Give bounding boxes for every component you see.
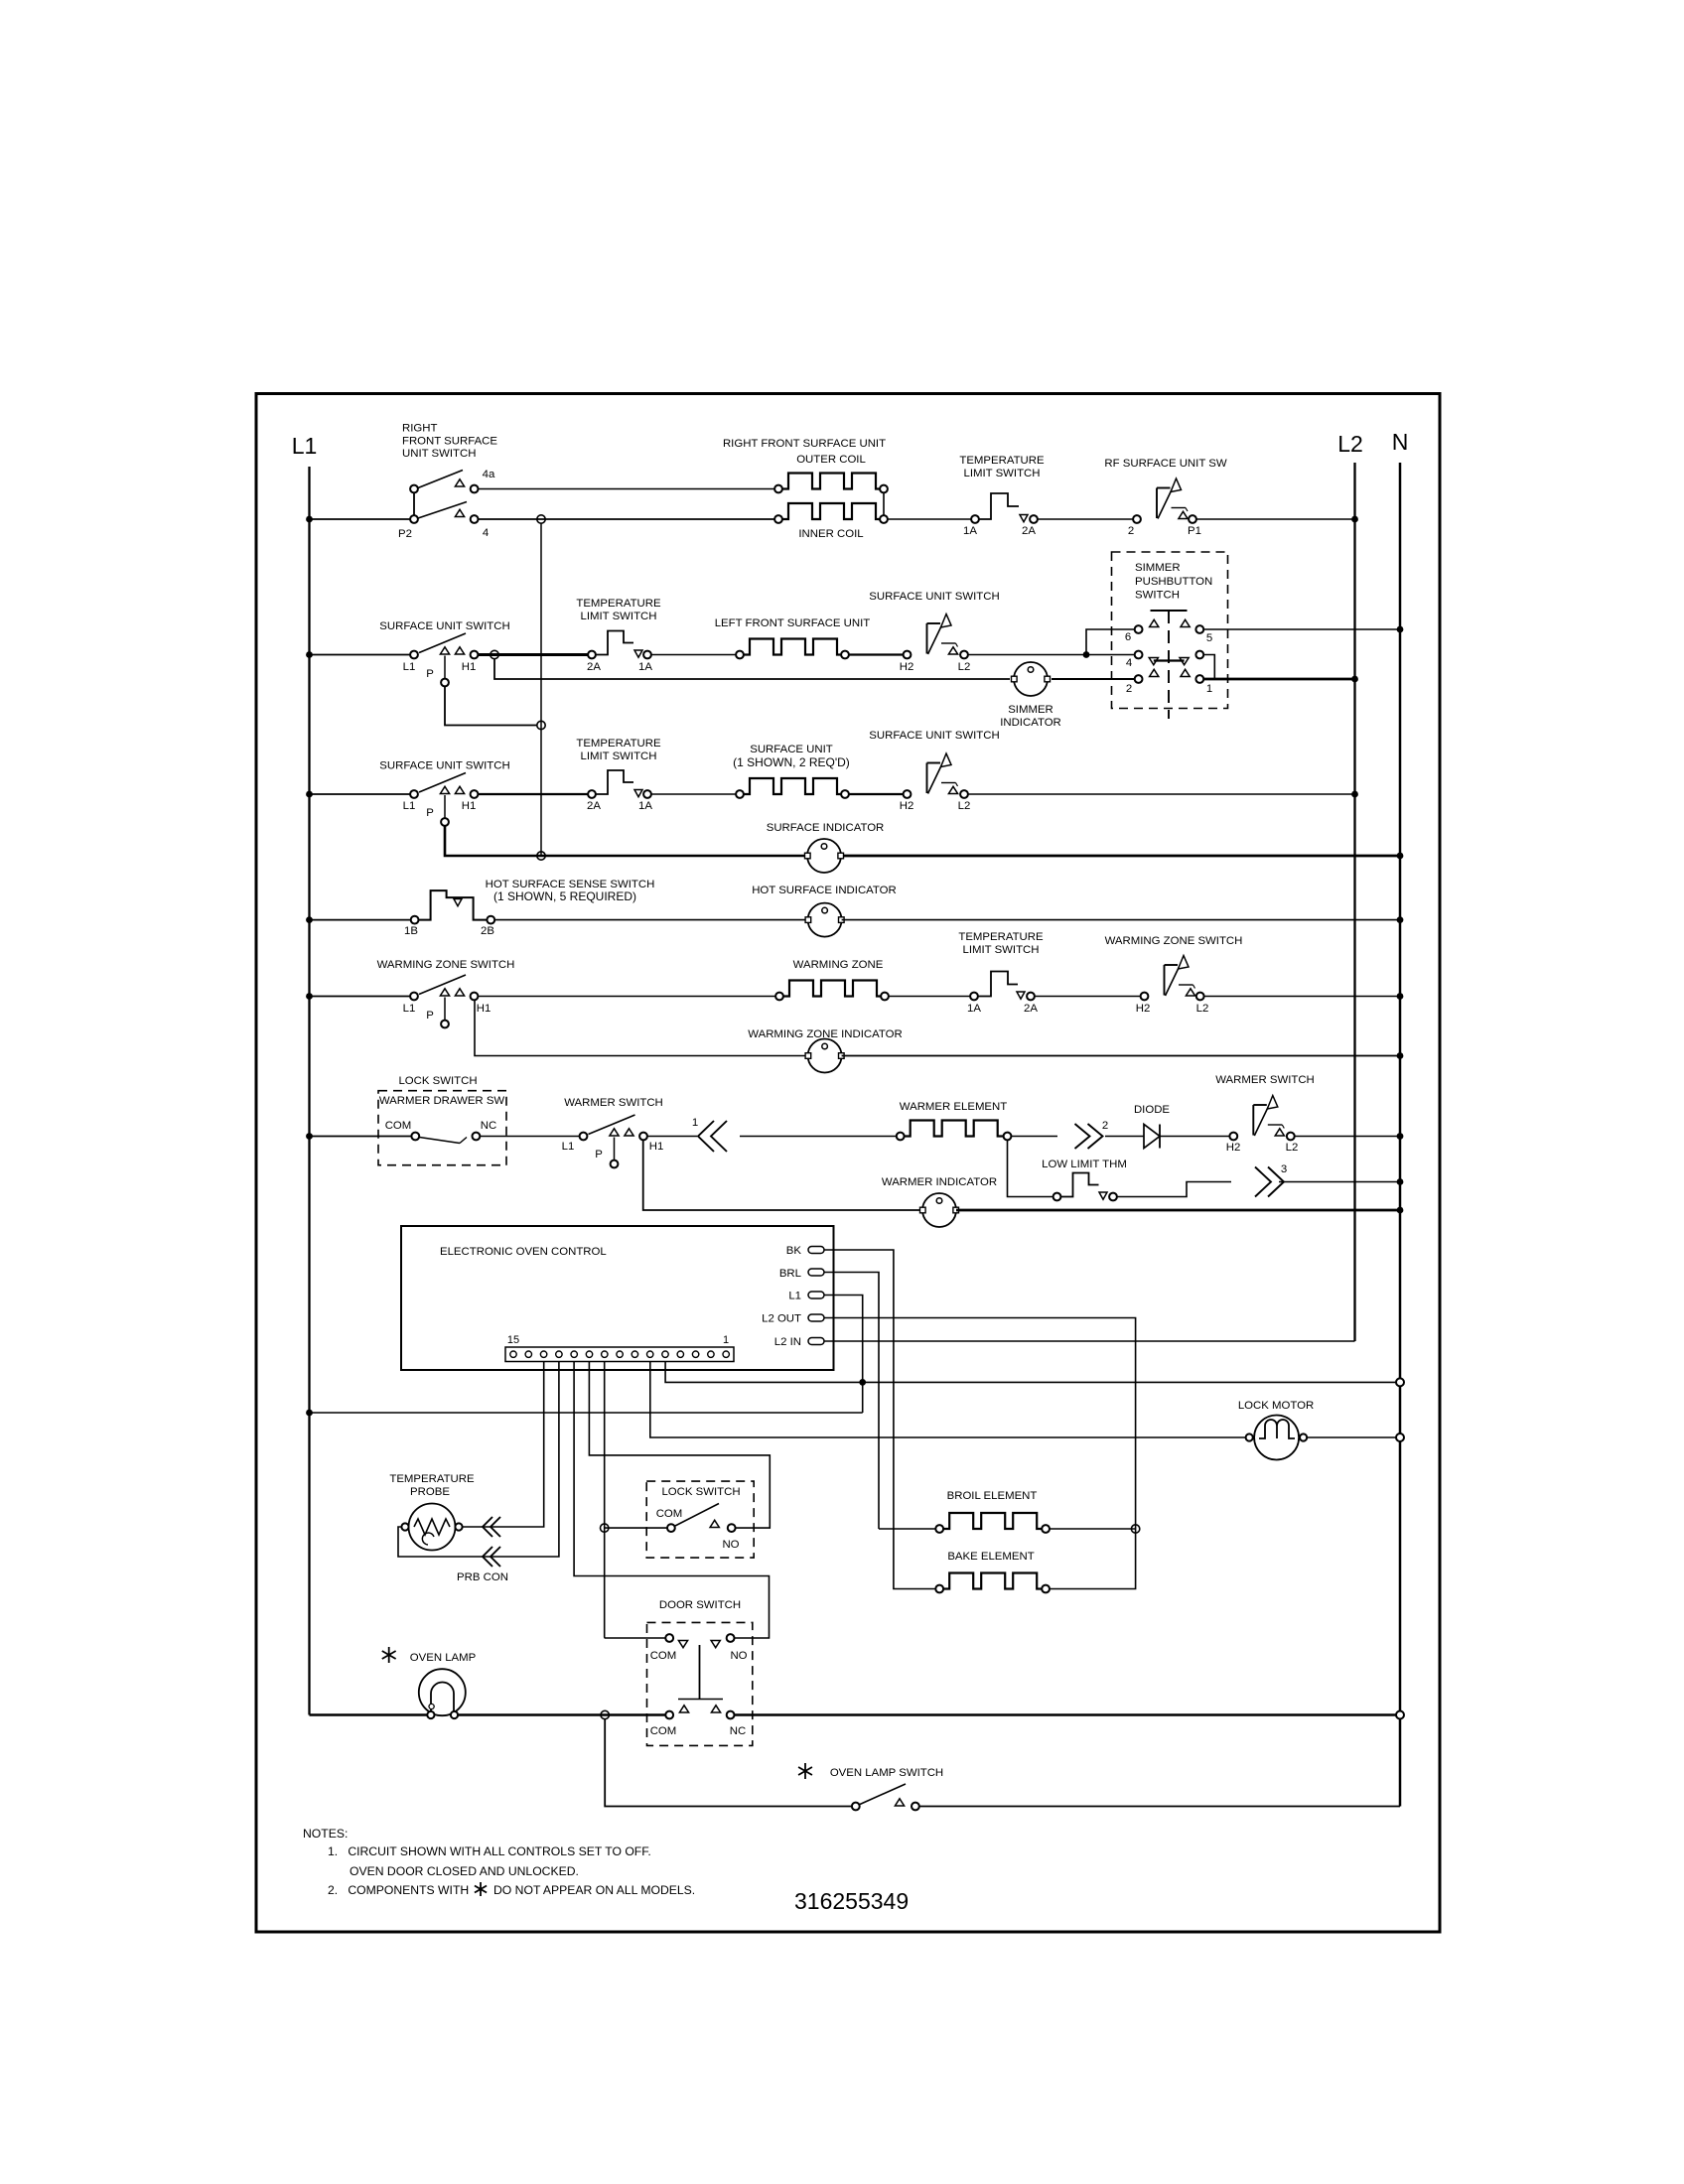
wire riser to simmer pin6 [1086,629,1135,655]
wire bake right to L2OUT feed [1050,1585,1136,1589]
resistor warming zone [775,993,783,1001]
wire oven lamp row from L1 bus [310,1713,428,1716]
svg-text:P: P [595,1149,603,1160]
wire warming row from L1 [310,996,415,998]
junction L1 warmer row [306,1133,313,1140]
wire terminal4 to door switch NO [574,1362,769,1639]
switch RF surface unit SW [1133,515,1141,523]
svg-text:COM: COM [650,1650,677,1662]
wire diode to warmer switch right [1160,1136,1229,1138]
simmer contact pin1 [1181,669,1190,676]
svg-text:L2 IN: L2 IN [774,1336,801,1348]
svg-text:L1: L1 [562,1141,575,1153]
wire row2 indicator drop and run [494,659,1010,680]
resistor surface unit [736,790,744,798]
svg-text:P1: P1 [1188,525,1201,537]
svg-text:SURFACE UNIT: SURFACE UNIT [750,744,833,755]
svg-text:DOOR SWITCH: DOOR SWITCH [659,1599,741,1611]
wire row3 P to surface indicator row [445,826,807,857]
svg-text:RF SURFACE UNIT SW: RF SURFACE UNIT SW [1104,458,1226,470]
svg-text:LIMIT SWITCH: LIMIT SWITCH [581,751,657,762]
svg-text:NC: NC [481,1120,496,1132]
junction L1 row1 [306,516,313,523]
wire H1 to connector 1 [647,1136,697,1138]
svg-text:H1: H1 [477,1003,491,1015]
wire warmer element to connector 2 [1012,1136,1058,1138]
connector chevron 2 [1075,1124,1090,1149]
switch warmer drawer switch contacts COM NC [411,1133,419,1141]
wire terminal11 to N [665,1362,1396,1383]
simmer contact pin6 [1135,625,1143,633]
svg-text:2: 2 [1102,1120,1108,1132]
svg-text:2B: 2B [481,925,494,937]
connector chevron 1 [711,1121,727,1152]
wire warmer element tap down to low limit thermostat [1008,1141,1053,1197]
svg-text:COM: COM [385,1120,412,1132]
svg-text:LIMIT SWITCH: LIMIT SWITCH [581,611,657,622]
wire 1A to surface unit coil [651,793,736,795]
wire oven lamp switch to N bus [919,1806,1400,1808]
wire terminal5 to lock switch NO [589,1362,770,1529]
svg-text:LOCK SWITCH: LOCK SWITCH [661,1486,740,1498]
wire NC to warmer switch [480,1136,579,1138]
resistor broil element [935,1525,943,1533]
wire 2A to RF surface unit switch [1038,518,1133,520]
svg-text:NO: NO [730,1650,747,1662]
wire coil to H2 row3 [849,793,904,795]
switch warming zone switch left [410,993,418,1001]
junction warming row at N bus [1397,993,1404,1000]
wire vertical feed from row1 down to surface indicator row [540,523,542,856]
junction warmer row at N bus [1397,1133,1404,1140]
junction L1 return at L1 bus [306,1410,313,1417]
svg-text:BROIL ELEMENT: BROIL ELEMENT [947,1490,1038,1502]
svg-text:BK: BK [786,1245,802,1257]
svg-text:INDICATOR: INDICATOR [1000,717,1061,729]
svg-text:SURFACE UNIT SWITCH: SURFACE UNIT SWITCH [379,620,509,632]
svg-text:OVEN DOOR CLOSED AND UNLOCKED.: OVEN DOOR CLOSED AND UNLOCKED. [350,1864,579,1878]
wire 2A to warming zone switch right [1035,996,1141,998]
svg-text:4: 4 [483,527,489,539]
junction simmer row at N bus [1397,626,1404,633]
connector probe chevron bottom [491,1547,500,1567]
junction row3 at L2 bus [1351,791,1358,798]
asterisk note 2 [480,1882,482,1896]
svg-text:COM: COM [656,1508,683,1520]
wire pin5 to N bus [1203,628,1400,630]
wire 4 to inner coil [479,518,774,520]
wire BRL vertical joins broil [878,1525,880,1529]
svg-text:LEFT FRONT SURFACE UNIT: LEFT FRONT SURFACE UNIT [715,617,871,629]
junction broil at L2OUT feed [1131,1525,1139,1533]
switch temperature limit switch row3 [588,790,596,798]
svg-text:SURFACE INDICATOR: SURFACE INDICATOR [767,822,885,834]
switch hot surface sense switch [411,916,419,924]
svg-text:2A: 2A [587,800,601,812]
door switch bottom contacts COM NC [665,1711,673,1719]
wire N bus vertical [1399,463,1402,1807]
svg-text:1B: 1B [404,925,418,937]
svg-text:PRB CON: PRB CON [457,1571,508,1583]
wire L2 IN to L2 bus [824,1340,1355,1342]
junction surface indicator row at N bus [1397,853,1404,860]
wire row1 L1 to switch [310,518,415,520]
switch warming zone switch right [1141,993,1149,1001]
svg-text:RIGHT: RIGHT [402,423,437,435]
wire L2 bus vertical [1353,463,1355,1341]
wire coil to temperature limit switch warming [889,996,970,998]
svg-text:TEMPERATURE: TEMPERATURE [576,738,661,750]
junction lamp switch tap [601,1710,609,1718]
junction L1 lug with terminal11 line [859,1379,866,1386]
wire lock motor to N bus [1307,1436,1396,1438]
wire L1 return line to L1 bus [310,1412,863,1414]
svg-text:SIMMER: SIMMER [1135,562,1181,574]
wire terminal2 to probe [463,1362,544,1528]
resistor inner coil right front surface unit [774,515,782,523]
lamp oven lamp [419,1669,466,1715]
lamp warmer indicator [922,1193,956,1227]
svg-text:H1: H1 [462,800,477,812]
wire row3 H1 to temperature limit switch [479,793,588,795]
svg-text:1. CIRCUIT SHOWN WITH ALL CO: 1. CIRCUIT SHOWN WITH ALL CONTROLS SET T… [328,1844,651,1858]
switch surface unit switch row2 right [904,651,912,659]
svg-text:P: P [426,1010,434,1022]
svg-text:2: 2 [1126,683,1132,695]
junction row2 indicator tap [491,650,498,658]
switch oven lamp switch [852,1803,860,1811]
svg-text:4: 4 [1126,657,1132,669]
wire row3 to L2 bus [968,793,1355,795]
svg-text:TEMPERATURE: TEMPERATURE [958,931,1044,943]
simmer pushbutton actuator [1151,610,1188,612]
junction warming indicator row at N bus [1397,1052,1404,1059]
wire warming row to N bus [1204,996,1400,998]
svg-text:L2 OUT: L2 OUT [762,1313,801,1325]
svg-text:L1: L1 [292,433,318,459]
switch temperature limit switch row1 [971,515,979,523]
asterisk oven lamp [388,1647,390,1663]
junction L1 row3 [306,791,313,798]
svg-text:H1: H1 [649,1141,664,1153]
junction low limit row at N bus [1397,1178,1404,1185]
svg-text:BRL: BRL [779,1268,801,1280]
switch surface unit switch row3 right [904,790,912,798]
svg-text:1A: 1A [638,661,652,673]
svg-text:OVEN LAMP SWITCH: OVEN LAMP SWITCH [830,1767,943,1779]
junction door bottom row at N bus open [1396,1711,1404,1719]
wire hot surface row from L1 [310,919,411,921]
resistor outer coil right front surface unit [774,485,782,493]
motor lock motor [1254,1416,1299,1460]
wire broil right to L2OUT feed [1050,1528,1136,1530]
svg-text:NOTES:: NOTES: [303,1827,348,1841]
junction L1 warming row [306,993,313,1000]
wire warmer H1 drop to warmer indicator [643,1141,922,1211]
svg-text:L1: L1 [403,800,416,812]
svg-text:NO: NO [722,1539,739,1551]
svg-text:15: 15 [507,1334,519,1346]
svg-text:HOT SURFACE INDICATOR: HOT SURFACE INDICATOR [752,885,897,896]
junction L1 row2 [306,651,313,658]
junction surface indicator row tap [537,852,545,860]
wire hot surface indicator to N bus [842,919,1400,921]
electronic oven control box [401,1226,834,1370]
svg-text:INNER COIL: INNER COIL [798,528,863,540]
svg-text:L1: L1 [403,1003,416,1015]
svg-text:RIGHT FRONT SURFACE UNIT: RIGHT FRONT SURFACE UNIT [723,438,886,450]
resistor left front surface unit [736,651,744,659]
svg-text:WARMING ZONE SWITCH: WARMING ZONE SWITCH [377,959,515,971]
svg-text:2. COMPONENTS WITH: 2. COMPONENTS WITH [328,1883,469,1897]
svg-text:TEMPERATURE: TEMPERATURE [389,1473,475,1485]
switch simmer pushbutton box [1112,552,1228,709]
resistor warmer element [897,1133,905,1141]
wire pin4 right link down [1203,655,1214,680]
switch low limit thermostat [1053,1193,1061,1201]
junction simmer riser [1083,651,1090,658]
svg-text:L2: L2 [1196,1003,1209,1015]
svg-text:1A: 1A [638,800,652,812]
lamp warming zone indicator [808,1039,842,1073]
svg-text:H2: H2 [1136,1003,1151,1015]
svg-text:L1: L1 [788,1291,801,1302]
svg-text:1: 1 [692,1117,698,1129]
wire terminal10 to lock motor [650,1362,1245,1438]
svg-text:WARMER SWITCH: WARMER SWITCH [564,1097,663,1109]
svg-text:WARMER DRAWER SW: WARMER DRAWER SW [379,1095,505,1107]
svg-text:SURFACE UNIT SWITCH: SURFACE UNIT SWITCH [869,591,999,603]
svg-text:LOW LIMIT THM: LOW LIMIT THM [1042,1159,1127,1170]
svg-text:FRONT SURFACE: FRONT SURFACE [402,436,497,448]
svg-text:1A: 1A [967,1003,981,1015]
svg-text:2: 2 [1128,525,1134,537]
door switch top contacts COM NO [665,1634,673,1642]
svg-text:DO NOT APPEAR ON ALL MODELS.: DO NOT APPEAR ON ALL MODELS. [493,1883,695,1897]
svg-text:P: P [426,668,434,680]
simmer contact pin4 [1135,651,1143,659]
svg-text:OUTER COIL: OUTER COIL [796,454,866,466]
wire row2 H1 to temperature limit switch [479,653,588,656]
svg-text:1A: 1A [963,525,977,537]
wire BK to bake element feed [824,1250,894,1585]
switch lock switch box [646,1481,754,1558]
svg-text:2A: 2A [587,661,601,673]
wire warmer indicator to N bus [956,1209,1400,1212]
terminal strip [505,1347,734,1362]
svg-text:P2: P2 [398,528,412,540]
svg-text:LOCK MOTOR: LOCK MOTOR [1238,1400,1314,1412]
svg-text:WARMER INDICATOR: WARMER INDICATOR [882,1176,997,1188]
simmer contact pin5 [1181,619,1190,626]
svg-text:SWITCH: SWITCH [1135,590,1180,602]
wire connector 3 to N bus [1279,1181,1400,1183]
wire 4a branch to outer coil [479,488,774,490]
wire warming indicator drop [475,1001,807,1056]
switch door switch box [647,1622,753,1745]
svg-text:(1 SHOWN, 2 REQ'D): (1 SHOWN, 2 REQ'D) [733,755,850,769]
resistor bake element [935,1585,943,1593]
switch temperature limit switch row2 [588,651,596,659]
svg-text:UNIT SWITCH: UNIT SWITCH [402,448,476,460]
svg-text:L1: L1 [403,661,416,673]
outer border frame [256,394,1440,1933]
svg-text:OVEN LAMP: OVEN LAMP [410,1652,476,1664]
svg-text:LIMIT SWITCH: LIMIT SWITCH [964,468,1041,479]
wire BK vertical joins bake [894,1585,935,1589]
switch warmer switch left [580,1133,588,1141]
switch surface unit switch row3 left [410,790,418,798]
junction hot surface row at N bus [1397,916,1404,923]
svg-text:5: 5 [1206,632,1212,644]
svg-text:WARMING ZONE: WARMING ZONE [793,959,884,971]
svg-text:L2: L2 [1286,1142,1299,1154]
diode [1144,1125,1160,1149]
lamp simmer indicator [1014,662,1048,696]
svg-text:WARMER SWITCH: WARMER SWITCH [1215,1074,1315,1086]
wire pin1 to L2 bus [1203,678,1354,681]
wire terminal3 to probe return [398,1362,559,1558]
svg-text:SURFACE UNIT SWITCH: SURFACE UNIT SWITCH [869,730,999,742]
simmer contact pin2 [1135,675,1143,683]
wire L2 contact to simmer switch pin4 [968,654,1135,656]
svg-text:L2: L2 [958,800,971,812]
switch warmer drawer switch box [378,1091,506,1165]
svg-text:3: 3 [1281,1163,1287,1175]
wire 2B to hot surface indicator [494,919,807,921]
switch right front surface unit switch (P2/4a/4) [410,515,418,523]
wire connector to warmer element [740,1136,897,1138]
svg-text:LOCK SWITCH: LOCK SWITCH [398,1075,477,1087]
svg-text:H2: H2 [900,800,914,812]
lamp hot surface indicator [808,903,842,937]
svg-text:1: 1 [723,1334,729,1346]
junction warmer indicator row at N bus [1397,1207,1404,1214]
junction row1 at L2 bus [1351,516,1358,523]
svg-text:WARMING ZONE INDICATOR: WARMING ZONE INDICATOR [748,1028,902,1040]
door switch actuator [699,1645,701,1700]
svg-text:(1 SHOWN, 5 REQUIRED): (1 SHOWN, 5 REQUIRED) [493,889,636,903]
svg-text:DIODE: DIODE [1134,1104,1170,1116]
connector probe chevron top [491,1517,500,1537]
svg-text:L2: L2 [1337,431,1363,457]
wire coil to H2 row2 [849,653,904,655]
svg-text:WARMING ZONE SWITCH: WARMING ZONE SWITCH [1105,935,1243,947]
svg-text:316255349: 316255349 [794,1888,909,1914]
svg-text:LIMIT SWITCH: LIMIT SWITCH [963,944,1040,956]
junction terminal6 lock COM tap [601,1524,609,1532]
wire L1 bus vertical [308,467,310,1715]
svg-text:BAKE ELEMENT: BAKE ELEMENT [947,1551,1034,1563]
svg-text:2A: 2A [1024,1003,1038,1015]
junction lock motor at N bus open [1396,1433,1404,1441]
wire 1A to left front surface unit coil [651,654,736,656]
junction terminal11 line at N bus open [1396,1378,1404,1386]
resistor temperature probe [409,1504,456,1551]
wire outer to inner coil join [883,493,885,516]
junction L1 hot surface row [306,916,313,923]
connector chevron 3 [1255,1167,1271,1197]
svg-text:TEMPERATURE: TEMPERATURE [576,598,661,610]
asterisk oven lamp switch [804,1763,806,1779]
switch temperature limit switch warming [970,993,978,1001]
wire surface indicator to N bus [844,855,1400,858]
wire indicator to pin2 [1052,678,1135,680]
junction vertical-feed tap on row1 [537,515,545,523]
wire low limit to connector 3 [1117,1182,1231,1197]
wire L1 lug down to L1 return line [824,1296,863,1414]
svg-text:SURFACE UNIT SWITCH: SURFACE UNIT SWITCH [379,760,509,772]
wire lock COM branch [605,1527,667,1529]
svg-text:TEMPERATURE: TEMPERATURE [959,455,1045,467]
svg-text:L2: L2 [958,661,971,673]
wire oven lamp to door switch bottom and N bus [459,1713,666,1716]
junction simmer row at L2 bus [1351,676,1358,683]
junction row2 pilot tap [537,721,545,729]
svg-text:N: N [1392,429,1409,455]
wire warming indicator to N bus [842,1055,1400,1057]
svg-text:2A: 2A [1022,525,1036,537]
wire inner coil to temperature limit switch [888,518,971,520]
wire row2 L1 to switch [310,654,415,656]
svg-text:1: 1 [1206,683,1212,695]
wire BRL to broil element feed [824,1273,879,1526]
svg-text:NC: NC [730,1725,746,1737]
svg-text:PUSHBUTTON: PUSHBUTTON [1135,576,1212,588]
svg-text:P: P [426,807,434,819]
wire lamp switch drop [605,1719,852,1807]
svg-text:H2: H2 [1226,1142,1241,1154]
wire L2 OUT to elements feed [824,1318,1136,1585]
wire warmer row to N bus [1295,1136,1400,1138]
svg-text:COM: COM [650,1725,677,1737]
svg-text:WARMER ELEMENT: WARMER ELEMENT [900,1101,1007,1113]
switch surface unit switch row2 left [410,651,418,659]
wire warmer row from L1 [310,1136,412,1138]
switch lock switch contacts [667,1524,675,1532]
svg-text:4a: 4a [483,469,495,480]
wire row3 L1 to switch [310,793,415,795]
wire H1 to warming zone coil [479,996,775,998]
wire terminal6 to lock COM and door COM [605,1362,666,1639]
lamp surface indicator [807,839,841,873]
svg-text:6: 6 [1125,631,1131,643]
wire P1 to L2 bus [1196,518,1355,520]
switch warmer switch right [1229,1133,1237,1141]
wire connector 2 to diode [1105,1136,1144,1138]
svg-text:ELECTRONIC OVEN CONTROL: ELECTRONIC OVEN CONTROL [440,1246,607,1258]
svg-text:PROBE: PROBE [410,1486,450,1498]
svg-text:H1: H1 [462,661,477,673]
svg-text:H2: H2 [900,661,914,673]
wire row2 P pigtail [445,686,537,726]
svg-text:SIMMER: SIMMER [1008,704,1053,716]
